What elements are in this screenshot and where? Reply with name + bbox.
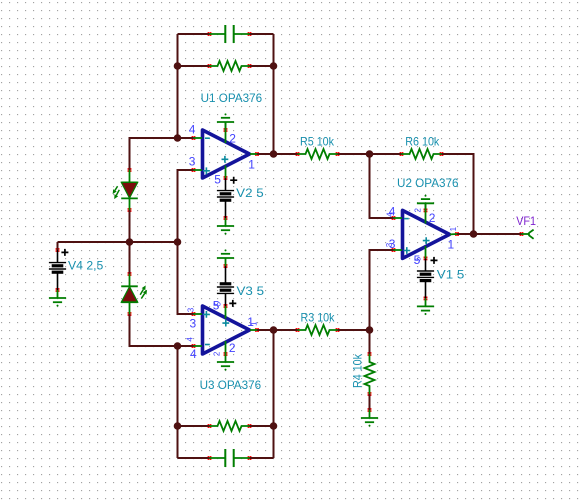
wire: U3 pin4 stub [194,345,203,347]
capacitor (U1 top feedback) [210,25,250,43]
junction: bottom feedback right [270,422,278,430]
wire: U1 output stub [250,153,257,155]
wire: U3 output stub [250,329,257,331]
wire: U2 output node to VF1 [474,233,522,235]
svg-text:U1 OPA376: U1 OPA376 [201,91,263,105]
svg-text:3: 3 [189,155,196,169]
svg-text:4: 4 [189,122,196,136]
wire: mid rail from V4 to LED/bus nodes [58,241,178,243]
ground below V2 [217,218,234,235]
svg-text:U3 OPA376: U3 OPA376 [200,378,262,392]
voltage source V2 5 [217,178,234,218]
svg-text:V4 2,5: V4 2,5 [68,258,104,272]
U2 supply plus mark [423,237,430,244]
wire: R3/R4 junction down to R4 [369,330,371,354]
svg-text:4: 4 [190,347,197,361]
ground below U3 pin2 [217,354,234,371]
voltage source V4 2,5 [49,250,66,290]
wire: U1 pin4 stub [194,137,203,139]
wire: U3 pin5 stub [225,306,227,319]
V1 plus sign [431,257,438,264]
LED D2 (bottom, cathode up) [121,274,147,314]
resistor R6 [402,149,442,159]
wire: R6 right to corner down to U2 output node [442,154,474,234]
voltage source V3 5 (flipped) [217,266,234,306]
ground above V3 (flipped) [217,249,234,266]
svg-text:2: 2 [414,208,423,213]
wire: U3 pin3 stub [194,313,203,315]
junction: bottom feedback left [174,422,182,430]
svg-text:1: 1 [248,157,255,171]
wire: U1 pin4 node left to LED D1 top [130,138,178,170]
svg-text:4: 4 [386,212,395,217]
junction: U3 output node [270,326,278,334]
wire: U1 pin5 stub [225,166,227,179]
wire: U2 pin3 corner down to R3/R4 junction [370,250,394,330]
svg-text:V2 5: V2 5 [236,186,264,200]
junction: mid rail / input bus node [174,238,182,246]
wire: U3 output to R3 [257,329,298,331]
U3 non-inverting mark [203,311,210,318]
wire: U2 output to node [457,233,474,235]
wire: bottom resistor right segment [250,425,274,427]
op-amp U1 OPA376 [203,130,250,178]
resistor (U3 bottom feedback) [210,421,250,431]
junction: U3 pin4 node [174,342,182,350]
wire: R5 to R5/R6 junction [338,153,370,155]
wire: U1 pin2 stub [225,122,227,143]
ground above U1 pin2 (flipped) [217,113,234,130]
svg-text:R3 10k: R3 10k [301,310,336,324]
junction: U1 output node [270,150,278,158]
wire: bottom cap right segment [250,457,274,459]
U3 supply plus mark [222,320,229,327]
wire: bottom resistor left segment [178,425,210,427]
wire: top resistor right segment [250,65,274,67]
junction: R3/R4 node [366,326,374,334]
svg-text:VF1: VF1 [516,214,536,228]
wire: U1 pin3 stub [194,169,203,171]
wire: R5/R6 junction down to U2 pin4 [370,154,394,218]
op-amp U2 OPA376 [403,210,450,258]
wire: U3 pin4 node down to bottom feedback [177,346,179,458]
svg-text:4: 4 [185,337,194,342]
wire: U3 output node down to bottom feedback [273,330,275,458]
wire: U2 pin4 stub [394,217,403,219]
U1 inverting mark [205,137,210,139]
wire: U3 pin2 stub [225,341,227,354]
svg-text:R6 10k: R6 10k [405,134,440,148]
U1 non-inverting mark [203,167,210,174]
resistor R5 [298,149,338,159]
resistor R3 [298,325,338,335]
resistor R4 [365,354,375,394]
wire: R4 ground stub [369,409,371,411]
svg-text:2: 2 [229,131,236,145]
wire: R4 bottom to ground [369,394,371,410]
wire: top left vertical (cap to resistor to U1 pin4 node) [177,34,179,138]
wire: U1 output to R5 [257,153,298,155]
wire: LED D2 bottom to U3 pin4 node [130,314,178,346]
wire: U2 output stub [450,233,457,235]
U2 inverting mark [404,218,409,220]
wire: LED D1 bottom to mid rail [129,210,131,242]
wire: U1 pin3 to vertical bus [178,170,194,242]
svg-text:V1 5: V1 5 [437,267,465,281]
U2 non-inverting mark [403,247,410,254]
wire: top cap left segment [178,33,210,35]
capacitor (U3 bottom feedback) [210,449,250,467]
svg-text:5: 5 [214,301,223,306]
ground below V1 [417,298,434,315]
V3 plus sign [229,300,236,307]
resistor (U1 top feedback) [210,61,250,71]
svg-text:1: 1 [449,226,458,231]
wire: U3 pin4 node to inverting input [178,345,194,347]
svg-text:V3 5: V3 5 [237,284,265,298]
wire: V4 top lead [57,242,59,250]
ground below V4 [49,290,66,307]
junction: mid rail / LED node [126,238,134,246]
svg-text:2: 2 [429,211,436,225]
wire: top resistor left segment [178,65,210,67]
wire: vertical bus mid-rail to U3 pin3 [178,242,194,314]
wire: top cap right segment [250,33,274,35]
U1 supply plus mark [222,156,229,163]
junction: U2 output / R6 node [470,230,478,238]
junction: R5/R6 node [366,150,374,158]
wire: U2 pin3 stub [394,249,403,251]
wire: U2 pin2 stub [425,203,427,223]
svg-text:2: 2 [213,351,222,356]
voltage source V1 5 [417,258,434,298]
wire: U1 pin4 node to inverting input [178,137,194,139]
wire: top right vertical (cap/resistor to U1 output node) [273,34,275,154]
junction: top feedback right [270,62,278,70]
junction: top feedback left [174,62,182,70]
svg-text:R4 10k: R4 10k [351,353,365,388]
wire: U2 pin5 stub [425,246,427,258]
ground above U2 pin2 (flipped) [417,195,434,212]
junction: U1 pin4 node [174,134,182,142]
ground below R4 [361,410,378,427]
wire: R3 to R3/R4 junction [338,329,370,331]
V4 plus sign [61,249,68,256]
pin connection marks (red x ticks at every component terminal) [56,32,524,460]
U3 inverting mark [205,344,210,346]
svg-text:5: 5 [414,256,423,261]
LED D1 (top, cathode down) [113,170,138,210]
svg-text:3: 3 [385,242,394,247]
svg-text:R5 10k: R5 10k [300,134,335,148]
svg-text:1: 1 [250,321,259,326]
svg-text:2: 2 [229,341,236,355]
op-amp U3 OPA376 [203,306,250,354]
V2 plus sign [230,177,237,184]
svg-text:5: 5 [214,173,221,187]
svg-text:U2 OPA376: U2 OPA376 [397,176,459,190]
svg-text:1: 1 [448,238,455,252]
voltage pin VF1 (output terminal) [522,230,534,239]
wire: R6 junction segment [370,153,402,155]
wire: LED D2 top from mid rail [129,242,131,274]
wire: bottom cap left segment [178,457,210,459]
svg-text:3: 3 [187,307,196,312]
svg-text:3: 3 [190,317,197,331]
